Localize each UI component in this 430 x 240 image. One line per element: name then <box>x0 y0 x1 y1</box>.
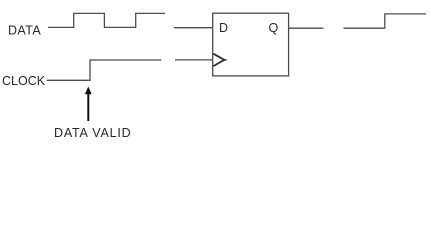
svg-text:DATA VALID: DATA VALID <box>54 126 131 140</box>
svg-text:CLOCK: CLOCK <box>2 74 46 88</box>
svg-text:DATA: DATA <box>8 24 41 38</box>
svg-text:D: D <box>219 21 228 35</box>
svg-text:Q: Q <box>269 21 279 35</box>
